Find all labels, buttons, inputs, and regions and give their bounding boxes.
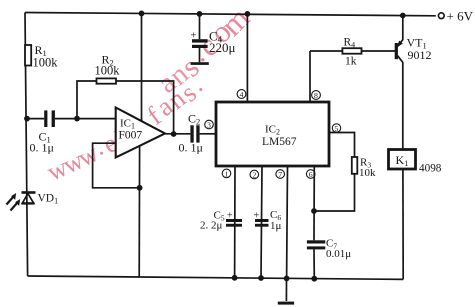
junction: top rail V+: [139, 11, 145, 17]
photodiode VD1: [22, 193, 36, 204]
IC2 LM567: [216, 102, 329, 166]
svg-text:0.01μ: 0.01μ: [326, 248, 351, 260]
junction: left rail / C1: [24, 116, 30, 122]
svg-text:6: 6: [309, 170, 313, 179]
svg-text:+: +: [254, 211, 260, 222]
wire: output to C2: [165, 133, 190, 135]
wire: C2 to pin3: [200, 133, 216, 135]
wire: R4 to base: [362, 50, 396, 52]
capacitor C4: [191, 14, 209, 65]
svg-text:5: 5: [335, 124, 339, 133]
pin 3: [205, 120, 214, 129]
light arrows into VD1: [7, 194, 20, 211]
svg-text:100k: 100k: [95, 64, 121, 78]
wire: left rail: [25, 13, 28, 277]
svg-text:2: 2: [252, 171, 256, 180]
ground: [278, 278, 294, 304]
wire: op-amp V+ from rail: [141, 13, 143, 122]
pin 7: [276, 170, 285, 179]
junction: rail C6: [258, 275, 264, 281]
svg-text:2. 2μ: 2. 2μ: [200, 220, 223, 232]
junction: top rail emitter: [400, 13, 406, 19]
svg-text:1μ: 1μ: [270, 220, 282, 232]
relay K1: [389, 150, 416, 170]
wire: pin1 to rail: [234, 166, 236, 278]
pin 4: [237, 90, 246, 100]
svg-text:100k: 100k: [33, 56, 59, 70]
svg-text:0. 1μ: 0. 1μ: [30, 141, 54, 155]
svg-text:1k: 1k: [345, 56, 357, 68]
junction: R2 branch: [74, 116, 80, 122]
resistor R4: [342, 48, 361, 54]
svg-text:C2: C2: [188, 112, 200, 127]
wire: top rail to pin4: [246, 14, 248, 102]
wire: op-amp bottom to ground rail: [138, 146, 140, 277]
wire: pin8 riser to R4: [310, 50, 342, 52]
svg-text:7: 7: [278, 170, 282, 179]
svg-text:VD1: VD1: [38, 193, 59, 206]
junction: feedback node: [137, 185, 143, 191]
svg-text:+: +: [191, 31, 197, 42]
svg-text:LM567: LM567: [262, 136, 297, 148]
op-amp IC1 F007: [116, 108, 165, 158]
svg-text:1: 1: [225, 170, 229, 179]
wire: rail to C1: [27, 118, 44, 120]
wire: R2 to output node: [116, 81, 174, 134]
wire: pin6 to C7: [313, 166, 315, 240]
wire: branch up to R2: [77, 81, 97, 119]
wire: bottom rail: [28, 276, 404, 279]
svg-text:220μ: 220μ: [209, 40, 236, 55]
junction: top rail C4: [197, 11, 203, 17]
svg-text:8: 8: [314, 91, 318, 100]
junction: R3/pin6 node: [311, 208, 317, 214]
wire: R4 branch to pin8: [309, 51, 311, 102]
svg-text:3: 3: [207, 121, 211, 130]
junction: top rail pin4: [245, 11, 251, 17]
pin 6: [306, 170, 315, 179]
pin 8: [312, 91, 321, 101]
pin 5: [332, 124, 340, 133]
svg-text:4098: 4098: [419, 163, 442, 175]
wire: R3 return to pin6 node: [314, 174, 355, 211]
wire: K1 to rail: [402, 169, 404, 279]
wire: top +6V rail: [25, 13, 436, 16]
junction: rail C5: [232, 275, 238, 281]
capacitor C1: [44, 110, 47, 127]
wire: pin7 to rail: [286, 166, 289, 278]
svg-text:0. 1μ: 0. 1μ: [179, 141, 203, 155]
svg-text:+: +: [227, 211, 233, 222]
pin 1: [222, 169, 231, 178]
junction: output node: [171, 131, 177, 137]
svg-text:10k: 10k: [359, 167, 376, 179]
svg-text:4: 4: [240, 90, 244, 99]
capacitor C5: [226, 219, 242, 222]
wire: C1 to op-amp input: [55, 118, 116, 120]
wire: pin5 to R3: [329, 133, 355, 158]
wire: C7 to rail: [313, 249, 315, 278]
svg-text:R4: R4: [344, 37, 356, 50]
junction: rail C7: [311, 276, 317, 282]
wire: inverting input loop: [93, 143, 140, 188]
svg-text:9012: 9012: [408, 48, 432, 62]
svg-text:F007: F007: [119, 130, 143, 142]
capacitor C6: [255, 219, 269, 222]
transistor VT1 9012: [395, 16, 403, 150]
junction: rail pin7: [284, 276, 290, 282]
wire: pin2 to rail: [261, 166, 262, 278]
resistor R3: [352, 157, 358, 174]
svg-text:+ 6V: + 6V: [447, 9, 474, 24]
+6V terminal: [438, 13, 444, 19]
capacitor C7: [307, 240, 325, 243]
capacitor C2: [190, 125, 193, 142]
resistor R1: [25, 45, 31, 66]
resistor R2: [97, 78, 117, 83]
pin 2: [250, 170, 259, 179]
